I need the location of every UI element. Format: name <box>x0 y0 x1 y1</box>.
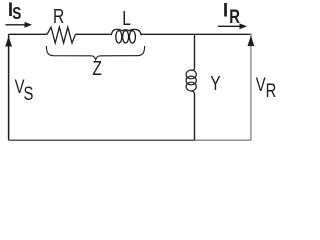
svg-text:S: S <box>12 5 21 24</box>
svg-text:R: R <box>266 80 277 101</box>
inductor L coil scallop top <box>111 29 141 35</box>
arrowhead up on left conductor <box>5 36 12 46</box>
inductor Y loop 1 <box>186 70 196 79</box>
svg-text:I: I <box>223 1 228 22</box>
wire: bottom conductor <box>9 139 195 141</box>
svg-text:V: V <box>256 74 266 95</box>
arrow for I_S current direction <box>6 24 27 26</box>
inductor L loop 1 <box>116 31 122 43</box>
arrowhead up on right conductor <box>248 36 255 46</box>
inductor Y entry hook <box>191 68 195 70</box>
resistor R1 zigzag <box>47 27 76 43</box>
brace under Z section <box>46 46 144 60</box>
svg-text:S: S <box>24 83 34 104</box>
wire: middle branch vertical lower <box>194 95 196 141</box>
svg-text:Y: Y <box>210 72 220 94</box>
wire: top conductor left segment <box>9 33 47 35</box>
inductor Y exit hook <box>191 91 195 95</box>
inductor L loop 3 <box>129 31 135 43</box>
svg-text:R: R <box>53 5 64 27</box>
wire: top conductor between R and L <box>76 33 112 35</box>
svg-text:Z: Z <box>92 57 102 79</box>
wire: left vertical conductor <box>8 34 10 140</box>
svg-text:R: R <box>229 6 240 27</box>
wire: top conductor right segment to node <box>141 33 251 35</box>
wire: right vertical conductor (gray) <box>250 34 252 140</box>
inductor Y loop 2 <box>186 76 196 85</box>
wire: bottom conductor right segment <box>195 139 252 141</box>
inductor Y loop 3 <box>186 82 196 91</box>
wire: middle branch vertical upper <box>194 34 196 68</box>
inductor L loop 2 <box>123 31 129 43</box>
svg-text:L: L <box>122 7 131 29</box>
arrow for I_R current direction <box>218 25 241 27</box>
